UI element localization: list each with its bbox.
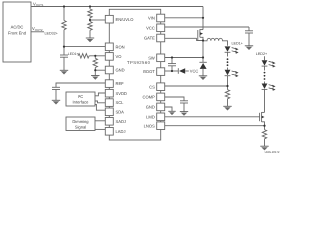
svg-text:SVDD: SVDD [116, 91, 127, 96]
svg-text:VOUT1: VOUT1 [33, 1, 44, 7]
svg-text:GND: GND [116, 68, 125, 73]
svg-text:AC/DC: AC/DC [11, 24, 24, 29]
svg-text:LMD: LMD [146, 114, 155, 119]
svg-text:GND: GND [146, 105, 155, 110]
svg-text:REF: REF [116, 81, 125, 86]
svg-text:CS: CS [149, 84, 155, 89]
svg-text:Interface: Interface [73, 99, 90, 104]
svg-text:LED2+: LED2+ [256, 52, 267, 56]
svg-text:Dimming: Dimming [72, 119, 89, 124]
svg-text:SDA: SDA [116, 109, 125, 114]
svg-text:I²C: I²C [78, 94, 84, 99]
svg-text:COMP: COMP [143, 95, 156, 100]
svg-text:Signal: Signal [75, 125, 86, 130]
svg-text:RON: RON [116, 44, 125, 49]
svg-text:GATE: GATE [144, 36, 155, 41]
svg-text:EN/UVLO: EN/UVLO [116, 17, 134, 22]
svg-text:LED32+: LED32+ [45, 32, 58, 36]
svg-text:LNOS: LNOS [144, 123, 155, 128]
svg-text:UDG-10172: UDG-10172 [265, 150, 280, 154]
svg-text:LADJ: LADJ [116, 129, 126, 134]
svg-text:SCL: SCL [116, 100, 125, 105]
svg-text:VCC: VCC [190, 69, 199, 74]
svg-text:SW: SW [148, 55, 155, 60]
svg-text:VO: VO [116, 54, 122, 59]
svg-text:LED1+: LED1+ [232, 41, 243, 45]
svg-text:SADJ: SADJ [116, 119, 126, 124]
svg-text:TPS92560: TPS92560 [127, 60, 151, 65]
svg-text:VCC: VCC [146, 25, 155, 30]
svg-text:BOOT: BOOT [143, 69, 155, 74]
svg-text:LED1+: LED1+ [68, 52, 79, 56]
svg-text:Front End: Front End [8, 30, 27, 35]
svg-text:VIN: VIN [148, 16, 155, 21]
svg-text:VOUT2: VOUT2 [32, 26, 43, 32]
